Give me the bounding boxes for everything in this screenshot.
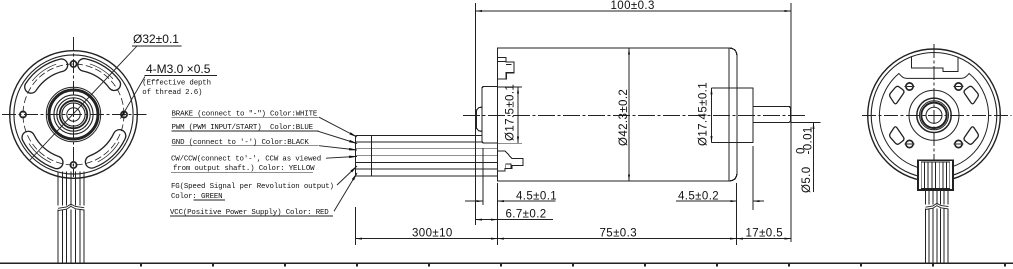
extension line at pilot front (100/6.7) [475,3,477,225]
svg-text:of thread 2.6): of thread 2.6) [142,89,202,97]
extension line rear boss face (4.5 right) [752,146,754,210]
front view inner rim circle [14,55,133,174]
rear shaft circle [926,107,942,123]
rear cable strain relief block [918,160,953,190]
svg-text:FG(Speed Signal per Revolution: FG(Speed Signal per Revolution output) [171,183,334,191]
svg-text:(Effective depth: (Effective depth [142,79,211,87]
dim 4.5+-0.1 [465,200,483,202]
bottom-left cable gland detail [498,151,524,171]
extension line cable end (300) [355,207,357,245]
dim O17.5 boss [498,86,523,88]
svg-text:Ø17.5±0.1: Ø17.5±0.1 [505,84,517,141]
rear bearing circles [909,90,959,140]
extension line body left face [497,183,499,245]
terminal notch at top [912,57,958,72]
front pilot boss [476,107,482,132]
front view outer circle (motor housing OD) [10,51,138,179]
dim 17+-0.5 [737,238,792,240]
ribbon cable wires (horizontal) [356,135,498,176]
dim 4.5+-0.2 [676,200,737,202]
extension line body right face [736,183,738,245]
cable break squiggle (front view) [58,204,84,208]
front view vertical center line [73,37,75,177]
extension line boss front face (4.5) [482,148,484,205]
extension line at shaft end [790,3,792,242]
svg-text:75±0.3: 75±0.3 [600,227,638,239]
svg-text:100±0.3: 100±0.3 [611,0,655,12]
front view horizontal center line [2,114,147,116]
svg-text:4-M3.0 ×0.5: 4-M3.0 ×0.5 [146,62,211,76]
front view vent arc slot bottom-right [85,130,125,168]
dim 6.7+-0.2 [476,219,498,221]
front boss O17.5 [482,87,498,144]
front view lead-wire cable going down [58,172,84,263]
rear vent slot SW [890,127,904,145]
svg-text:4.5±0.2: 4.5±0.2 [678,190,719,202]
dim O5.0 shaft [791,122,821,124]
O32 diameter leader line (45 deg through center) [30,46,138,161]
rear cable going down [926,190,949,263]
M3 mounting hole bottom [70,162,76,168]
top-left terminal step detail [498,57,515,78]
rear cover screw bottom-left [905,140,915,147]
rear cable break squiggle [926,203,949,207]
svg-text:4.5±0.1: 4.5±0.1 [516,190,557,202]
rear cover screw top-left [905,83,915,90]
M3 mounting hole top [70,61,76,67]
svg-text:Ø32±0.1: Ø32±0.1 [133,32,179,46]
side view center line [463,114,806,116]
rear view vertical center line [933,44,935,160]
dim 75+-0.3 [498,238,737,240]
rear view second circle [871,53,997,179]
svg-text:CW/CCW(connect to'-', CCW as v: CW/CCW(connect to'-', CCW as viewed [171,155,321,163]
svg-text:Ø42.3±0.2: Ø42.3±0.2 [618,89,630,146]
svg-text:Ø5.0: Ø5.0 [801,166,813,193]
rear boss O17.45 [737,88,753,143]
svg-text:Ø17.45±0.1: Ø17.45±0.1 [698,82,710,146]
rear view outer circle [868,49,1001,182]
front view vent arc slot bottom-left [22,131,63,168]
M3 mounting hole right [121,111,127,117]
rear vent slot SE [964,127,978,145]
rear plate circle with ear bumps and flat chord [879,74,988,170]
dim 100+-0.3 [476,10,792,12]
front view vent arc slot top-right [78,59,121,91]
motor body outline [498,48,738,181]
rear view horizontal center line [862,114,1012,116]
dim O17.45 rear boss [712,87,738,89]
svg-text:17±0.5: 17±0.5 [746,227,784,239]
rear cover screw top-right [954,83,964,90]
4-M3.0 leader line with arrow to right hole [121,77,146,119]
ribbon cable jacket edge [370,135,372,176]
output shaft O5 [753,106,791,122]
drawing frame bottom line [0,262,1013,264]
rear cover screw bottom-right [954,140,964,147]
ribbon cable left end vertical [355,135,357,176]
front shaft circle [67,108,80,121]
bolt circle O32 (dashed) [23,64,124,165]
svg-text:300±10: 300±10 [412,227,453,239]
front bearing boss circles [46,87,100,141]
rear vent slot NE [964,86,978,104]
rear vent slot NW [890,86,904,104]
dim 300+-10 [356,238,498,240]
M3 mounting hole left [20,111,26,117]
end cap seam line [728,48,730,180]
front view vent arc slot top-left [25,59,68,93]
svg-text:-0.01: -0.01 [803,126,815,154]
dim O42.3 internal vertical [628,48,630,181]
svg-text:6.7±0.2: 6.7±0.2 [506,208,547,220]
